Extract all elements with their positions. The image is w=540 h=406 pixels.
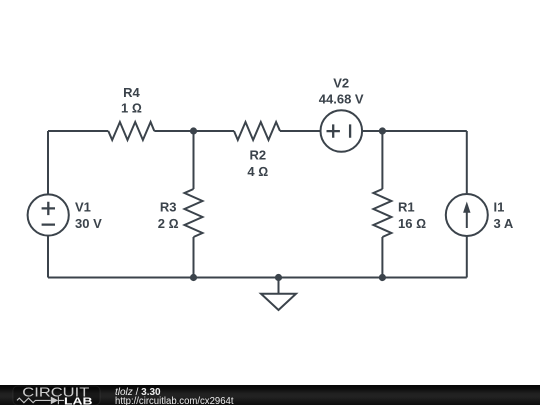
wire top-left horizontal <box>48 130 108 132</box>
wire V2 to top-right corner <box>362 130 467 132</box>
ground <box>261 278 296 311</box>
svg-text:I1: I1 <box>494 199 505 214</box>
label V1 value <box>75 199 102 230</box>
svg-text:3 A: 3 A <box>494 216 514 231</box>
label V2 value <box>319 76 364 107</box>
svg-text:30 V: 30 V <box>75 216 102 231</box>
node junction dot top left <box>190 127 197 134</box>
svg-text:4 Ω: 4 Ω <box>247 164 268 179</box>
footer logo resistor squiggle and wire <box>17 396 64 404</box>
wire left vertical lower <box>47 236 49 278</box>
resistor R1 <box>373 189 391 237</box>
node junction dot top right <box>379 127 386 134</box>
node junction dot ground <box>275 274 282 281</box>
svg-text:R4: R4 <box>123 85 140 100</box>
svg-text:44.68 V: 44.68 V <box>319 91 364 106</box>
label R2 value <box>247 147 268 179</box>
label R3 value <box>158 199 179 230</box>
svg-text:LAB: LAB <box>64 396 93 406</box>
node junction dot bottom left <box>190 274 197 281</box>
wire R1 top lead <box>381 131 383 189</box>
svg-text:http://circuitlab.com/cx2964t: http://circuitlab.com/cx2964t <box>115 396 234 406</box>
voltage source V1 <box>28 194 69 235</box>
wire R3 bottom lead <box>193 237 195 278</box>
wire R3 top lead <box>193 131 195 189</box>
label I1 value <box>494 199 514 230</box>
wire right vertical lower <box>466 236 468 278</box>
wire R4 to R2 <box>154 130 234 132</box>
resistor R3 <box>185 189 203 237</box>
svg-text:2 Ω: 2 Ω <box>158 216 179 231</box>
wire R1 bottom lead <box>381 237 383 278</box>
svg-text:R1: R1 <box>398 199 415 214</box>
svg-text:R3: R3 <box>160 199 177 214</box>
svg-text:1 Ω: 1 Ω <box>121 101 142 116</box>
voltage source V2 <box>321 110 363 152</box>
wire right vertical upper <box>466 131 468 194</box>
resistor R4 <box>108 122 154 140</box>
wire R2 to V2 <box>280 130 321 132</box>
wire left vertical upper <box>47 131 49 195</box>
svg-text:V1: V1 <box>75 199 91 214</box>
svg-text:V2: V2 <box>333 76 349 91</box>
footer logo diode symbol <box>51 396 58 404</box>
node junction dot bottom right <box>379 274 386 281</box>
footer logo badge <box>13 386 100 405</box>
current source I1 <box>446 194 488 236</box>
resistor R2 <box>234 122 280 140</box>
label R4 value <box>121 85 142 116</box>
svg-text:16 Ω: 16 Ω <box>398 216 426 231</box>
svg-text:R2: R2 <box>249 147 266 162</box>
wire bottom horizontal <box>48 277 467 279</box>
label R1 value <box>398 199 426 230</box>
